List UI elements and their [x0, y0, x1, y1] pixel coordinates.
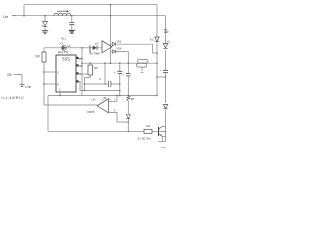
component bar before VD2 [89, 45, 91, 53]
transistor VT2 arrow [160, 134, 162, 136]
op-amp U2 triangle (points left) [97, 99, 109, 113]
junction 128/122 [128, 121, 130, 123]
pin digits right column [79, 57, 81, 84]
wire mid horizontal y=63 [82, 62, 130, 64]
junction 120/90.5 [119, 90, 121, 92]
svg-text:VD3: VD3 [117, 40, 122, 43]
diode marks on x165 lower [163, 105, 167, 109]
svg-text:1,5В: 1,5В [25, 85, 31, 89]
U2 minus mark lower [109, 109, 111, 113]
pin number 4 U2 [114, 110, 116, 113]
wire top rail y=5 [24, 4, 157, 6]
junction 105/84 [104, 83, 106, 85]
svg-text:UА: UА [92, 98, 96, 102]
junction 157/53 [156, 52, 158, 54]
svg-text:HL1: HL1 [61, 37, 66, 41]
series cap wire y=84 [85, 83, 120, 85]
svg-text:555: 555 [62, 57, 70, 62]
coil stub tick [141, 71, 144, 73]
LED VD6 on x165 [163, 40, 170, 48]
pin 3 stub [76, 73, 88, 75]
pin 1 number [59, 88, 61, 92]
junction 82/58 [81, 58, 83, 60]
junction at 165/77 [165, 76, 167, 78]
diode anode stubs [111, 44, 113, 51]
LED blob VD2 [93, 46, 97, 50]
resistor R9 box [144, 129, 152, 133]
U2 lower input wire [109, 113, 129, 123]
label 555 [62, 57, 70, 62]
wire right rail x=157 [156, 5, 158, 96]
wire coil row to rail [130, 62, 157, 64]
svg-text:+: + [160, 68, 162, 72]
op-amp U1 triangle [102, 41, 112, 53]
svg-text:2: 2 [57, 71, 59, 75]
pin 7 square [76, 80, 78, 82]
svg-text:ЛМ35: ЛМ35 [87, 110, 95, 114]
svg-text:RV: RV [36, 55, 41, 59]
wire lower elbow x=128 [116, 52, 129, 64]
label R9 [147, 124, 151, 128]
svg-text:51-50 Ом: 51-50 Ом [138, 136, 151, 140]
zener diode VD1 [43, 22, 48, 27]
current arrow above inductor [57, 10, 68, 12]
junction center/top [110, 4, 112, 6]
pin 6 stub [44, 83, 56, 85]
pin 4 stub [76, 65, 82, 67]
series capacitor C6 [109, 81, 111, 87]
svg-text:R6: R6 [131, 97, 135, 101]
svg-text:1: 1 [59, 88, 61, 92]
junction 120/84 [119, 83, 121, 85]
junction cap branch [71, 15, 73, 17]
junction main/riser [23, 15, 25, 17]
junction 128/131 [128, 131, 130, 133]
wire cap branch x=120 [119, 63, 121, 95]
junction 82/66 [81, 65, 83, 67]
label above LED row [61, 37, 66, 41]
ground below C1 [69, 30, 75, 33]
VD2 bar [96, 46, 98, 50]
junction 128/63 [128, 62, 130, 64]
plus C7 [123, 73, 125, 77]
junction 117/95.5 [116, 95, 118, 97]
capacitor C3 [118, 71, 123, 73]
svg-text:КС: КС [150, 38, 155, 42]
wire center vertical x=110 [110, 5, 112, 63]
wire left column x=48 [47, 96, 49, 132]
junction 120/63 [119, 62, 121, 64]
junction pin1/95.5 [59, 95, 61, 97]
node Vin label [3, 14, 8, 19]
wire upper to right y=45 [116, 44, 157, 53]
label above IC [58, 50, 69, 54]
wire pins rail x=82 [81, 48, 83, 96]
label VD4 [117, 48, 122, 51]
label KC147 [150, 38, 155, 42]
battery wire [14, 75, 23, 85]
pin 2 stub [44, 71, 56, 73]
label DA2 [92, 98, 96, 102]
wire VT2 collector join [158, 127, 166, 142]
formula label [2, 96, 25, 100]
coil bottom stub [141, 67, 143, 71]
wire input dash [12, 15, 16, 17]
wire right outer rail x=165 [165, 16, 167, 128]
svg-text:АСТ08А: АСТ08А [90, 52, 101, 56]
label HL1 [68, 44, 72, 48]
pin 7 stub [76, 81, 80, 83]
wire cap branch x=105 [104, 63, 106, 84]
inductor L1 [54, 13, 71, 15]
label 51-50 Om [138, 136, 151, 140]
LED HL1 chevron [62, 46, 66, 51]
svg-text:R5: R5 [94, 66, 98, 70]
wire RV branch [44, 48, 97, 105]
junction 128/95.5 [128, 95, 130, 97]
svg-text:HL: HL [68, 44, 72, 48]
junction 120/95.5 b [119, 95, 121, 97]
diode VD7 on x128 [126, 115, 130, 119]
U2 upper input wire [109, 96, 118, 102]
relay coil pill lower [136, 63, 147, 67]
junction jog/rail [84, 90, 86, 92]
capacitor C8 on x165 [163, 70, 168, 72]
transistor VT2 legs [159, 127, 166, 137]
resistor RV box [42, 52, 46, 62]
junction at 157/77 [156, 76, 158, 78]
battery GB label [7, 73, 12, 77]
bottom wire y=131 [48, 130, 158, 132]
pin 8 stub [76, 58, 82, 60]
junction zener [44, 15, 46, 17]
zener VD5 on x157 [155, 37, 159, 42]
junction 157/95.5 [156, 95, 158, 97]
ground below zener [42, 31, 48, 34]
label RV [36, 55, 41, 59]
junction 120/95.5 [119, 95, 121, 97]
wire R6 column x=128 [127, 63, 129, 131]
junction mid/x110 [110, 62, 112, 64]
label R6 [131, 97, 135, 101]
LED HL1 arrows [60, 42, 64, 45]
label VD3 [117, 40, 122, 43]
junction R5 top [89, 62, 91, 64]
555 IC body [56, 55, 76, 92]
battery value label [25, 85, 31, 89]
svg-text:Uп: Uп [3, 14, 8, 19]
plus label C8 [160, 68, 162, 72]
wire riser to top rail [23, 5, 25, 16]
wire main rail y=16 [16, 15, 166, 17]
pin 4 square [76, 64, 78, 66]
svg-text:C: C [99, 77, 102, 81]
wire pin7 rail y=90.5 [80, 82, 120, 91]
junction 157/63 [156, 62, 158, 64]
pin number 3 U2 [114, 98, 116, 101]
wire zener branch [44, 16, 46, 31]
relay coil pill upper [138, 59, 149, 63]
junction 84.5/84 [84, 83, 86, 85]
transistor VT2 bar [158, 127, 160, 136]
svg-text:R9: R9 [147, 124, 151, 128]
svg-text:R: R [167, 30, 169, 34]
junction VT2 mid [165, 131, 166, 132]
capacitor C7 on x128 [126, 74, 131, 76]
U2 plus mark upper [109, 98, 111, 102]
junction 44/84 [43, 83, 45, 85]
label C6 [99, 77, 102, 81]
svg-text:f=1,44/R1C: f=1,44/R1C [2, 96, 25, 100]
pin 6 number [57, 83, 59, 87]
wire under-IC y=95.5 [48, 95, 157, 97]
resistor R5 box [88, 65, 93, 75]
wire R5 bottom jog [85, 75, 91, 91]
svg-text:+: + [114, 70, 116, 74]
diode VD4 right of U1 [112, 50, 115, 54]
pin 2 number [57, 71, 59, 75]
LED wire y=48 [44, 47, 102, 49]
battery plates [20, 84, 25, 86]
plus C3 [114, 70, 116, 74]
svg-text:+: + [123, 73, 125, 77]
svg-text:ДА1 555: ДА1 555 [58, 50, 69, 54]
wire capacitor branch [71, 16, 73, 30]
junction 105/63 [104, 62, 106, 64]
capacitor C1 [69, 23, 74, 25]
bottom right faint marks [161, 146, 165, 148]
LED HL1 circle [62, 45, 67, 50]
label R5 [94, 66, 98, 70]
input arrow U2 [102, 97, 106, 100]
pin 8 square [76, 57, 78, 59]
svg-text:VD4: VD4 [117, 48, 122, 51]
pin 3 square [76, 72, 78, 74]
resistor R5 lead top [89, 63, 91, 65]
resistor R6 zigzag [127, 96, 130, 101]
junction 44/72 [43, 71, 45, 73]
svg-text:6: 6 [57, 83, 59, 87]
junction center/main [110, 15, 112, 17]
label ACT08 [90, 52, 101, 56]
svg-text:GB: GB [7, 73, 12, 77]
junction 82/63 [81, 62, 83, 64]
label x165 component [167, 30, 169, 34]
pin 1 stub [59, 92, 61, 96]
junction 82/48 [81, 47, 83, 49]
VD2 arrows [95, 43, 99, 46]
label LM358 [87, 110, 95, 114]
diode VD3 right of U1 [112, 42, 115, 46]
svg-text:3: 3 [114, 98, 116, 101]
resistor tiny marks on x165 top [164, 30, 167, 33]
wire bridging rails y=77 [157, 76, 166, 78]
